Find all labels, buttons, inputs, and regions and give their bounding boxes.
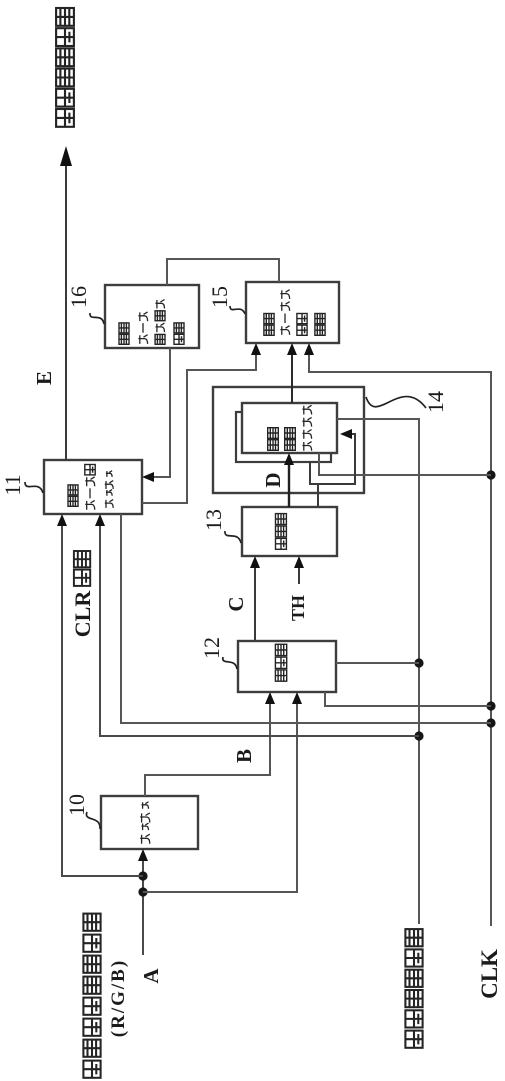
box 15 text line2 パターン	[280, 290, 289, 335]
leader squiggle 13	[225, 531, 241, 543]
svg-text:E: E	[32, 371, 56, 385]
leader squiggle 16	[90, 313, 104, 324]
arrowhead into box 13 (C input)	[250, 556, 260, 568]
counter back box (stacked)	[236, 412, 331, 462]
arrowhead into box 12 (B input)	[265, 692, 275, 704]
svg-text:(R/G/B): (R/G/B)	[108, 959, 129, 1037]
wire input A line	[142, 852, 144, 955]
counter text line1 変化	[268, 428, 279, 451]
counter text line2 継続	[285, 428, 296, 451]
junction dot sync to box 12	[414, 658, 423, 667]
svg-text:15: 15	[207, 286, 232, 308]
counter text line3 カウンタ	[302, 405, 311, 451]
box 11 text line2 データ用	[85, 465, 95, 510]
leader squiggle 14	[366, 397, 426, 408]
wire sync to box 12	[336, 662, 419, 664]
arrowhead into box 12 (A input)	[292, 692, 302, 704]
wire horizontal sync main line	[337, 419, 419, 924]
leader squiggle 10	[86, 812, 100, 829]
box 16 text line1 画像	[119, 323, 129, 344]
svg-text:CLK: CLK	[477, 949, 502, 999]
wire box 16 to box 11	[146, 348, 170, 477]
svg-text:16: 16	[66, 286, 91, 308]
box 15 text line1 変化	[264, 313, 274, 335]
label CLR信号 kanji part 信号	[74, 551, 90, 586]
wire CLR from sync to box 11	[100, 517, 419, 736]
wire A to box 11	[62, 517, 143, 876]
leader squiggle 11	[25, 482, 43, 493]
wire A to box 12	[143, 695, 297, 892]
box 14 outer group frame	[213, 387, 364, 493]
leader squiggle 15	[230, 306, 245, 314]
wire D from box 13 to counter	[288, 456, 290, 507]
box 15 text line3 出力	[297, 313, 307, 335]
arrowhead output	[60, 146, 72, 166]
junction dot A line upper	[138, 871, 147, 880]
junction dot sync to CLR	[414, 731, 423, 740]
box 12 text 減算器	[275, 644, 286, 681]
box 11 image data buffer (画像データ用バッファ)	[44, 460, 142, 514]
box 11 text line3 バッファ	[105, 471, 113, 508]
box 15 change pattern output circuit (変化パターン出力回路)	[246, 282, 339, 343]
wire CLK to box 11	[121, 514, 491, 723]
arrowhead into counter (D input)	[284, 453, 294, 465]
svg-text:12: 12	[199, 637, 224, 659]
svg-text:D: D	[261, 472, 285, 487]
svg-text:C: C	[224, 596, 248, 611]
arrowhead box11-signal into box 15	[251, 343, 261, 355]
input signal text 外部入力映像信号	[83, 914, 100, 1078]
arrowhead feedback into counter bottom	[340, 429, 352, 439]
wire counter feedback loop	[310, 434, 355, 484]
box 16 text line3 書き換え	[155, 300, 165, 345]
wire CLK main line	[309, 346, 491, 926]
wire box 11 to box 15	[142, 346, 256, 503]
arrowhead box16 into box 11	[142, 472, 154, 482]
wire counter to box 15	[291, 346, 293, 403]
junction dot CLK to box 12 riser	[486, 701, 495, 710]
junction dot CLK to box 11 riser	[486, 718, 495, 727]
arrowhead into box 11 (A input)	[57, 514, 67, 526]
box 16 text line4 手段	[174, 323, 184, 344]
arrowhead A into box 10	[138, 849, 148, 861]
wire box 15 to box 16 loop	[167, 259, 279, 285]
wire C from box 12 to box 13	[254, 559, 256, 641]
svg-text:11: 11	[0, 474, 25, 495]
svg-text:13: 13	[201, 509, 226, 531]
svg-text:A: A	[139, 968, 163, 984]
svg-text:CLR: CLR	[70, 590, 95, 638]
junction dot CLK to counter riser	[486, 470, 495, 479]
wire B from box 10 to box 12	[145, 695, 270, 796]
box 15 text line4 回路	[315, 313, 325, 335]
counter front box 変化継続カウンタ	[242, 403, 337, 453]
box 16 text line2 データ	[138, 312, 147, 344]
leader squiggle 12	[223, 657, 237, 669]
svg-text:B: B	[232, 749, 256, 763]
wire CLK to counter	[319, 453, 491, 475]
box 11 text line1 画像	[68, 485, 78, 506]
arrowhead counter into box 15	[287, 343, 297, 355]
arrowhead CLK into box 15	[304, 343, 314, 355]
wire TH stub	[298, 559, 300, 584]
svg-text:TH: TH	[288, 595, 308, 621]
sync signal text 水平同期信号	[405, 929, 422, 1048]
wire CLK to box 12	[325, 692, 491, 706]
svg-text:10: 10	[64, 794, 89, 816]
wire E output from box 11	[65, 149, 67, 460]
output signal text 出力映像信号	[56, 8, 74, 127]
junction dot A line lower	[138, 887, 147, 896]
box 10 buffer (バッファ)	[101, 796, 198, 849]
svg-text:14: 14	[423, 391, 448, 413]
wire box 13 tap into feedback loop	[317, 484, 319, 507]
box 16 image data rewriting means (画像データ書き換え手段)	[105, 285, 199, 348]
box 12 subtractor (減算器)	[238, 641, 336, 692]
box 13 text 比較器	[276, 514, 287, 550]
arrowhead into box 13 (TH input)	[294, 556, 304, 568]
box 13 comparator (比較器)	[242, 507, 337, 556]
box 10 text バッファ	[140, 802, 150, 844]
arrowhead CLR into box 11	[95, 514, 105, 526]
